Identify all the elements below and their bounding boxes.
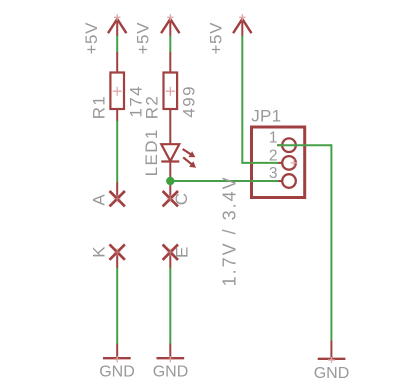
svg-text:GND: GND [153, 363, 189, 380]
svg-text:+5V: +5V [207, 22, 226, 55]
svg-text:E: E [173, 246, 192, 258]
svg-text:+5V: +5V [82, 22, 101, 55]
svg-text:GND: GND [314, 365, 350, 382]
svg-text:499: 499 [180, 85, 199, 118]
svg-text:A: A [90, 194, 109, 206]
svg-text:R2: R2 [143, 95, 162, 120]
svg-text:1: 1 [269, 130, 278, 147]
svg-text:LED1: LED1 [142, 128, 161, 176]
svg-text:JP1: JP1 [251, 107, 281, 126]
svg-text:+5V: +5V [133, 22, 152, 55]
svg-text:3: 3 [269, 165, 278, 182]
svg-text:K: K [90, 246, 109, 258]
svg-text:C: C [172, 192, 191, 205]
svg-text:GND: GND [99, 363, 135, 380]
svg-text:1.7V / 3.4V: 1.7V / 3.4V [220, 175, 240, 286]
svg-text:2: 2 [269, 147, 278, 164]
svg-text:R1: R1 [90, 95, 109, 120]
